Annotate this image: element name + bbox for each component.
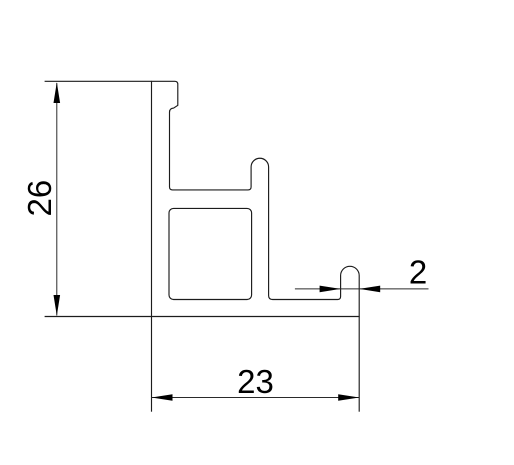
arrow right (23 right) bbox=[338, 394, 359, 401]
left extension below bbox=[151, 317, 153, 412]
arrow right (2 left side, pointing right) bbox=[320, 286, 341, 293]
svg-text:26: 26 bbox=[21, 180, 58, 217]
arrow left (2 right side, pointing left) bbox=[359, 286, 380, 293]
svg-text:23: 23 bbox=[237, 363, 274, 400]
bottom extension line bbox=[45, 316, 152, 318]
right extension below bbox=[358, 317, 360, 412]
top extension line bbox=[45, 80, 152, 82]
inner chamber bbox=[169, 208, 252, 299]
arrow down (26 bottom) bbox=[54, 295, 61, 316]
dim line 23 bbox=[152, 397, 360, 399]
arrow left (23 left) bbox=[152, 394, 173, 401]
arrow up (26 top) bbox=[54, 82, 61, 103]
dim line 2 bbox=[295, 288, 429, 290]
svg-text:2: 2 bbox=[409, 254, 427, 291]
dim line 26 bbox=[56, 83, 58, 316]
profile outline bbox=[152, 81, 360, 316]
